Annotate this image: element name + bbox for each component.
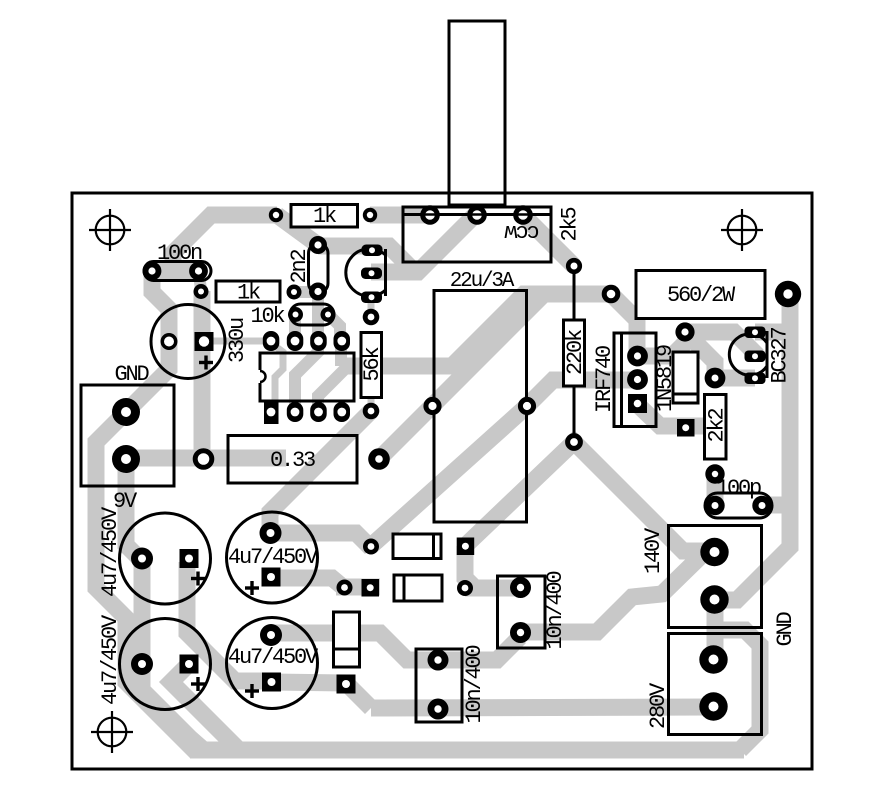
svg-text:1k: 1k [237,281,261,306]
svg-text:10k: 10k [250,304,285,329]
svg-text:2n2: 2n2 [287,250,312,284]
svg-text:10n/400: 10n/400 [543,571,568,649]
svg-text:2k2: 2k2 [705,409,730,443]
svg-text:4u7/450V: 4u7/450V [98,506,123,597]
svg-text:ccw: ccw [505,219,540,244]
svg-text:330u: 330u [225,318,250,363]
svg-text:4u7/450V: 4u7/450V [228,545,319,570]
svg-text:140V: 140V [641,527,666,574]
svg-text:BC327: BC327 [768,327,793,383]
svg-text:4u7/450V: 4u7/450V [228,645,319,670]
svg-text:560/2W: 560/2W [667,283,736,308]
svg-text:100n: 100n [157,241,202,266]
svg-text:2k5: 2k5 [558,208,583,242]
svg-text:10n/400: 10n/400 [462,645,487,723]
svg-text:22u/3A: 22u/3A [450,270,515,293]
svg-text:100p: 100p [716,476,761,501]
svg-text:280V: 280V [646,682,671,729]
svg-text:GND: GND [114,362,149,387]
svg-text:56k: 56k [360,347,385,382]
svg-text:220k: 220k [563,329,588,375]
svg-text:4u7/450V: 4u7/450V [98,614,123,705]
svg-text:0.33: 0.33 [270,448,315,473]
svg-text:1N5819: 1N5819 [653,345,678,412]
svg-text:IRF740: IRF740 [592,346,617,413]
svg-text:GND: GND [773,612,798,647]
svg-text:1k: 1k [313,204,337,229]
